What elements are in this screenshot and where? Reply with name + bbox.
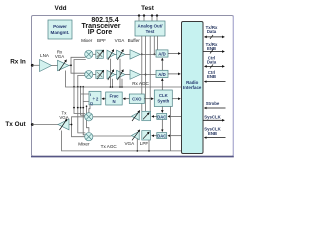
test tap junction dots [141, 54, 155, 76]
Test pin dots [138, 14, 158, 16]
Tx AGC junction dots [137, 150, 150, 152]
Rx Q mixer [85, 70, 93, 78]
pin Ctrl ENB [204, 70, 225, 82]
wire DAC to LPF Q [152, 135, 157, 137]
junction dot divider branch [86, 105, 88, 107]
Radio Interface block [182, 22, 204, 154]
Tx Q mixer [85, 133, 93, 141]
wire VGA1-VGA2 (Q) [115, 74, 117, 76]
junction VGA out [70, 64, 72, 66]
wire divider branch to Tx Q mixer LO [87, 106, 89, 132]
Tx I mixer [85, 113, 93, 121]
Frac N synthesizer box [106, 92, 123, 105]
clock wire to DAC I [161, 107, 163, 113]
svg-text:VGA: VGA [55, 54, 64, 59]
LO bus junction dots row upper [73, 86, 84, 88]
pin Ctrl Data [205, 56, 225, 69]
wire radio interface to DAC Q [168, 135, 182, 137]
svg-text:LPF: LPF [140, 141, 149, 146]
LNA amplifier [40, 53, 52, 71]
svg-text:Mixer: Mixer [78, 142, 90, 147]
Rx In pin [10, 59, 34, 67]
svg-text:DAC: DAC [157, 114, 166, 119]
wire DAC to LPF I [152, 115, 157, 117]
wire mixer to BPF (I) [93, 53, 96, 55]
Rx AGC wire [66, 59, 182, 87]
Tx VGA I amplifier [132, 111, 140, 122]
clock wire to A/D I [161, 58, 163, 70]
wire VGA2-buffer (Q) [125, 74, 130, 76]
svg-text:Mangmt.: Mangmt. [51, 30, 70, 35]
arrow CLK Synth to radio interface [172, 98, 180, 100]
Tx LPF I [142, 111, 151, 120]
Rx VGA amplifier [55, 50, 69, 71]
Rx VGA1 amplifier (Q) [107, 70, 115, 81]
svg-text:A/D: A/D [158, 51, 165, 56]
svg-text:BPF: BPF [97, 38, 106, 43]
pin Tx/Rx Data [205, 25, 225, 39]
Tx combine wires [69, 117, 85, 137]
A/D converter Q [156, 70, 168, 77]
svg-text:÷ 2: ÷ 2 [93, 96, 99, 101]
wire VGA2-buffer (I) [125, 53, 130, 55]
wire A/D I to radio interface [168, 53, 180, 55]
wire radio interface to DAC I [168, 115, 182, 117]
CLK Synth box [154, 90, 172, 107]
divider by 2 I/Q [89, 91, 101, 105]
svg-text:I: I [90, 93, 91, 97]
Rx VGA2 amplifier (Q) [117, 70, 125, 81]
A/D converter I [156, 50, 168, 57]
wire A/D Q to radio interface [168, 73, 180, 75]
svg-text:Mixer: Mixer [81, 38, 93, 43]
svg-text:Tx AGC: Tx AGC [101, 144, 118, 149]
DAC I [157, 114, 167, 120]
svg-text:Buffer: Buffer [128, 38, 141, 43]
Analog Out / Test box [135, 21, 165, 36]
wire Tx mixer Q to VGA [93, 135, 132, 137]
LO bus junction dots row lower [73, 107, 84, 109]
pin Tx/Rx ENB [203, 42, 224, 54]
Rx buffer Q [130, 70, 140, 79]
Rx VGA2 amplifier (I) [117, 50, 125, 61]
svg-text:Analog Out/: Analog Out/ [138, 24, 164, 29]
wire Tx mixer I to VGA [93, 116, 132, 118]
LO bus wires [74, 60, 89, 135]
svg-text:VGA: VGA [115, 38, 126, 43]
Rx BPF I [96, 50, 104, 59]
wire divider to Tx I mixer LO [89, 105, 90, 113]
Rx signal split wires [69, 57, 85, 73]
CXO box [129, 94, 144, 104]
svg-text:ENB: ENB [208, 131, 217, 136]
svg-text:DAC: DAC [157, 134, 166, 139]
wires Test pins to Analog Out box [139, 16, 157, 21]
wire LNA to Rx VGA [52, 65, 58, 67]
clock wire to DAC Q [161, 119, 163, 131]
clock wire to A/D Q [161, 79, 163, 90]
Rx AGC junction dots [110, 86, 123, 88]
svg-text:VGA: VGA [124, 141, 135, 146]
svg-text:Tx Out: Tx Out [5, 121, 26, 128]
svg-text:CXO: CXO [132, 97, 142, 102]
Power Mangmt box [48, 20, 72, 39]
svg-text:Power: Power [53, 24, 67, 29]
svg-text:Synth: Synth [157, 99, 169, 104]
chip boundary frame [31, 16, 234, 157]
arrow Frac N to divider [102, 98, 106, 100]
svg-text:LNA: LNA [40, 53, 50, 58]
svg-text:Data: Data [207, 29, 217, 34]
svg-text:Test: Test [141, 5, 155, 12]
pin Strobe [204, 101, 225, 108]
svg-text:N: N [112, 99, 115, 104]
DAC Q [157, 133, 167, 139]
svg-text:Interface: Interface [183, 85, 202, 90]
pin SysCLK ENB [204, 127, 225, 138]
junction Tx VGA in [71, 124, 73, 126]
wire Rx In to LNA [32, 64, 39, 66]
svg-text:Q: Q [90, 101, 93, 105]
svg-text:Data: Data [207, 60, 217, 65]
Tx LPF Q [142, 131, 151, 140]
Rx I mixer [85, 50, 93, 58]
Tx Out pin [5, 121, 33, 128]
svg-text:VGA: VGA [59, 115, 68, 120]
svg-text:Rx AGC: Rx AGC [132, 81, 149, 86]
svg-text:SysCLK: SysCLK [204, 114, 221, 119]
wire VGA1-VGA2 (I) [115, 53, 117, 55]
svg-text:ENB: ENB [207, 74, 216, 79]
svg-text:Strobe: Strobe [206, 101, 220, 106]
svg-text:A/D: A/D [158, 72, 165, 77]
Rx buffer I [130, 50, 140, 59]
Tx VGA amplifier [58, 111, 69, 130]
wire mixer to BPF (Q) [93, 74, 96, 76]
svg-text:Rx In: Rx In [10, 59, 26, 66]
svg-text:Vdd: Vdd [54, 5, 66, 12]
svg-text:ENB: ENB [207, 46, 216, 51]
pin SysCLK [203, 114, 224, 120]
wire buffer to A/D (Q) [140, 74, 156, 76]
svg-text:Test: Test [146, 29, 155, 34]
Rx BPF Q [96, 70, 104, 79]
Tx VGA Q amplifier [132, 130, 140, 141]
Tx AGC wire [62, 131, 182, 151]
test tap wires [142, 36, 158, 111]
title 802.15.4 Transceiver IP Core [82, 17, 121, 36]
wire buffer to A/D (I) [140, 53, 156, 55]
svg-text:IP Core: IP Core [88, 29, 112, 36]
arrow CXO to Frac N [123, 98, 129, 100]
svg-text:CLK: CLK [159, 93, 169, 98]
arrow CXO to CLK Synth [144, 98, 153, 100]
Rx VGA1 amplifier (I) [107, 50, 115, 61]
wire Tx Out to Tx VGA [32, 124, 58, 126]
wire CLK Synth to Tx AGC line [169, 107, 171, 151]
